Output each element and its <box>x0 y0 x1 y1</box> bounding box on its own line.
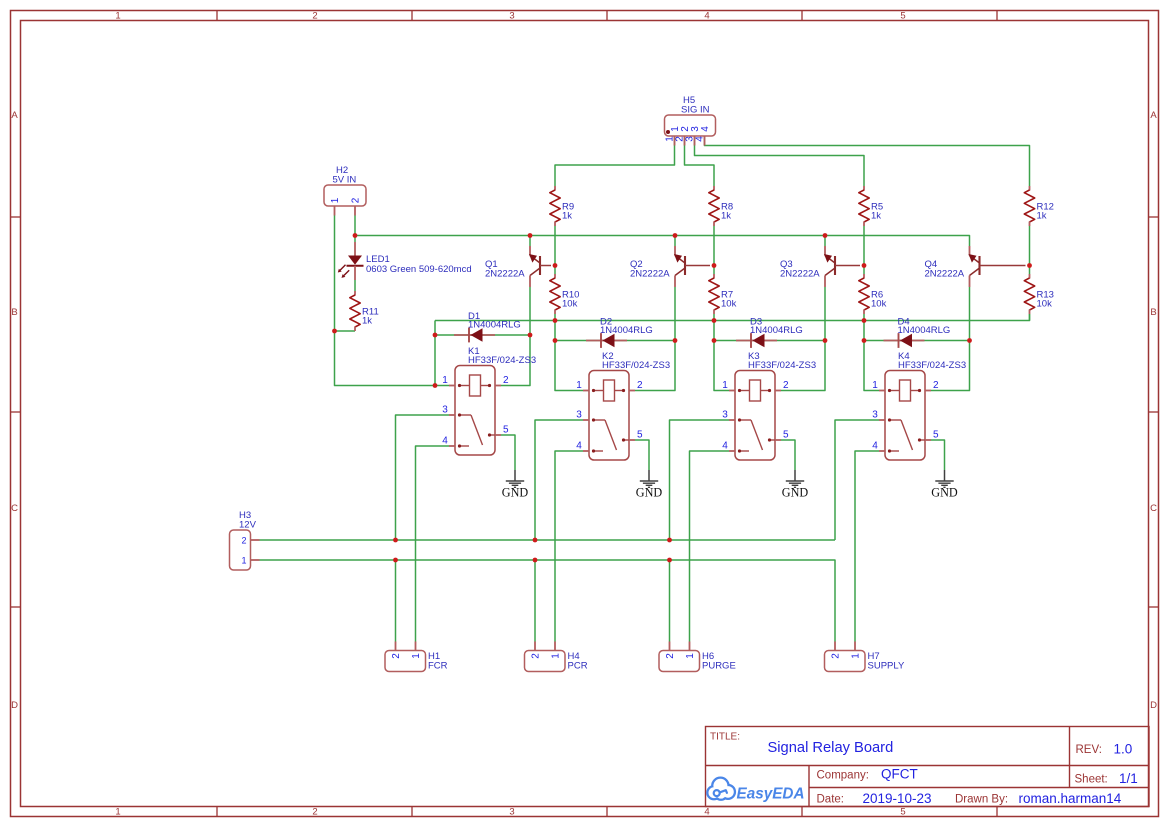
svg-text:FCR: FCR <box>428 661 448 672</box>
junction 12V rail A x=395.5 <box>393 538 398 543</box>
junction K1.1 node <box>433 383 438 388</box>
svg-text:5: 5 <box>900 11 905 22</box>
wire Q1 collector to K1.2 <box>501 287 530 386</box>
connector H2 5V IN <box>324 165 366 216</box>
svg-text:2: 2 <box>783 380 789 391</box>
svg-text:GND: GND <box>636 486 663 500</box>
svg-text:1: 1 <box>851 653 862 659</box>
junction D4 right <box>967 338 972 343</box>
resistor R6 <box>859 274 887 314</box>
svg-text:C: C <box>1150 503 1157 514</box>
wire R top to base node x=555 <box>554 226 556 274</box>
transistor Q3 2N2222A <box>780 246 860 287</box>
svg-text:A: A <box>11 110 18 121</box>
svg-text:B: B <box>1150 307 1156 318</box>
wire R bottom x=1029.5 <box>1029 314 1031 321</box>
wire K3.5 to GND <box>781 440 795 470</box>
svg-text:Sheet:: Sheet: <box>1075 774 1108 786</box>
wire 12V rail A <box>260 539 836 541</box>
wire D4 line <box>864 340 970 342</box>
wire rail to Q emitter x=825 <box>824 236 826 247</box>
wire H2.2 down <box>354 216 356 236</box>
wire rail B to H1.2 <box>395 560 397 642</box>
wire D2 line <box>555 340 675 342</box>
svg-text:10k: 10k <box>871 299 887 310</box>
wire R bottom x=555 <box>554 314 556 321</box>
wire K1.5 to GND <box>501 435 515 470</box>
junction base node x=714 <box>712 263 717 268</box>
svg-text:4: 4 <box>704 807 709 818</box>
wire H5.3 to R5 <box>695 136 865 186</box>
svg-text:1: 1 <box>115 11 120 22</box>
resistor R7 <box>709 274 737 314</box>
svg-text:3: 3 <box>872 410 878 421</box>
svg-text:5: 5 <box>503 425 509 436</box>
wire K1.4 to H1.1 <box>416 446 450 642</box>
transistor Q4 2N2222A <box>925 246 1026 287</box>
svg-text:C: C <box>11 503 18 514</box>
resistor R13 <box>1024 274 1054 314</box>
wire D3 line <box>714 340 825 342</box>
relay K1 HF33F/024-ZS3 <box>442 346 536 455</box>
wire K1.3 to 12V rail <box>396 415 450 540</box>
connector H6 PURGE <box>659 642 736 672</box>
svg-text:2: 2 <box>831 653 842 659</box>
wire x555 down to K2.1 <box>555 321 583 391</box>
wire R top to base node x=864 <box>863 226 865 274</box>
svg-text:1: 1 <box>411 653 422 659</box>
svg-text:5: 5 <box>783 430 789 441</box>
wire Q3 collector to K3.2 <box>781 287 825 391</box>
wire H2.1 to K1.1 node <box>335 216 436 386</box>
svg-text:4: 4 <box>576 441 582 452</box>
wire D1 line <box>435 334 530 336</box>
junction base node x=1029.5 <box>1027 263 1032 268</box>
relay K4 HF33F/024-ZS3 <box>872 351 966 460</box>
ground GND K4 <box>931 470 958 500</box>
ground GND K1 <box>502 470 529 500</box>
svg-text:D: D <box>11 700 18 711</box>
svg-text:1: 1 <box>115 807 120 818</box>
junction D3 left <box>712 338 717 343</box>
resistor R10 <box>550 274 580 314</box>
svg-text:12V: 12V <box>239 520 257 531</box>
svg-text:2: 2 <box>503 375 509 386</box>
resistor R5 <box>859 186 883 226</box>
svg-text:1k: 1k <box>871 211 881 222</box>
svg-text:1N4004RLG: 1N4004RLG <box>898 325 951 336</box>
svg-text:2: 2 <box>637 380 643 391</box>
junction 5V rail x=530 <box>528 233 533 238</box>
svg-text:1N4004RLG: 1N4004RLG <box>750 325 803 336</box>
svg-text:SUPPLY: SUPPLY <box>868 661 905 672</box>
svg-text:HF33F/024-ZS3: HF33F/024-ZS3 <box>748 360 816 371</box>
wire x864 down to K4.1 <box>864 321 879 391</box>
svg-text:1k: 1k <box>1037 211 1047 222</box>
svg-text:2: 2 <box>531 653 542 659</box>
wire K2.3 to 12V rail <box>535 420 583 540</box>
svg-text:1: 1 <box>685 653 696 659</box>
wire K3.4 to H6.1 <box>690 451 730 642</box>
svg-text:2: 2 <box>665 653 676 659</box>
relay K3 HF33F/024-ZS3 <box>722 351 816 460</box>
svg-text:2019-10-23: 2019-10-23 <box>863 791 932 806</box>
svg-text:2: 2 <box>312 807 317 818</box>
junction 5V rail x=825 <box>823 233 828 238</box>
svg-text:1: 1 <box>551 653 562 659</box>
svg-text:TITLE:: TITLE: <box>710 732 740 743</box>
ground GND K3 <box>782 470 809 500</box>
svg-text:Signal Relay Board: Signal Relay Board <box>768 740 894 756</box>
wire rail to Q emitter x=675 <box>674 236 676 247</box>
resistor R12 <box>1024 186 1054 226</box>
svg-text:GND: GND <box>782 486 809 500</box>
svg-text:3: 3 <box>722 410 728 421</box>
wire R bottom x=714 <box>713 314 715 321</box>
svg-text:4: 4 <box>694 136 705 142</box>
wire K2.5 to GND <box>635 440 649 470</box>
svg-text:1: 1 <box>442 375 448 386</box>
junction D4 left <box>862 338 867 343</box>
wire R top to base node x=1029.5 <box>1029 226 1031 274</box>
svg-text:HF33F/024-ZS3: HF33F/024-ZS3 <box>468 355 536 366</box>
svg-text:4: 4 <box>722 441 728 452</box>
svg-text:Date:: Date: <box>817 794 845 806</box>
svg-text:4: 4 <box>442 436 448 447</box>
svg-text:4: 4 <box>704 11 709 22</box>
svg-text:1: 1 <box>722 380 728 391</box>
diode D2 1N4004RLG <box>586 317 653 348</box>
svg-text:3: 3 <box>442 405 448 416</box>
svg-text:2N2222A: 2N2222A <box>485 269 525 280</box>
svg-text:GND: GND <box>931 486 958 500</box>
svg-text:1N4004RLG: 1N4004RLG <box>468 320 521 331</box>
svg-text:GND: GND <box>502 486 529 500</box>
svg-text:1k: 1k <box>562 211 572 222</box>
wire K4.3 to 12V rail <box>835 420 879 540</box>
junction 12V rail A x=669.5 <box>667 538 672 543</box>
connector H7 SUPPLY <box>825 642 905 672</box>
junction y320 rail x=555 <box>553 318 558 323</box>
svg-text:2: 2 <box>391 653 402 659</box>
wire K3.3 to 12V rail <box>670 420 730 540</box>
svg-text:2: 2 <box>241 536 246 546</box>
svg-text:Drawn By:: Drawn By: <box>955 794 1008 806</box>
svg-text:5: 5 <box>900 807 905 818</box>
svg-text:1.0: 1.0 <box>1114 742 1133 757</box>
svg-text:10k: 10k <box>562 299 578 310</box>
svg-text:B: B <box>11 307 17 318</box>
svg-text:2N2222A: 2N2222A <box>630 269 670 280</box>
svg-text:3: 3 <box>509 11 514 22</box>
svg-text:1/1: 1/1 <box>1119 771 1138 786</box>
svg-text:3: 3 <box>576 410 582 421</box>
junction D2 right <box>673 338 678 343</box>
title block <box>706 727 1150 807</box>
svg-text:QFCT: QFCT <box>881 767 918 782</box>
junction 12V rail B x=535 <box>533 558 538 563</box>
junction R11 bottom <box>332 329 337 334</box>
junction D3 right <box>823 338 828 343</box>
svg-text:5: 5 <box>933 430 939 441</box>
svg-text:D: D <box>1150 700 1157 711</box>
svg-text:HF33F/024-ZS3: HF33F/024-ZS3 <box>602 360 670 371</box>
LED LED1 0603 Green 509-620mcd <box>338 242 472 280</box>
wire R bottom x=864 <box>863 314 865 321</box>
junction D2 left <box>553 338 558 343</box>
wire 5V rail to Q4 <box>355 236 970 247</box>
resistor R8 <box>709 186 733 226</box>
svg-text:REV:: REV: <box>1076 744 1102 756</box>
connector H1 FCR <box>385 642 448 672</box>
wire rail B to H4.2 <box>534 560 536 642</box>
wire GND-side rail y320 to R13 <box>435 314 1030 321</box>
svg-text:1N4004RLG: 1N4004RLG <box>600 325 653 336</box>
wire K4.4 to H7.1 <box>855 451 879 642</box>
svg-text:1: 1 <box>241 556 246 566</box>
svg-text:1k: 1k <box>362 316 372 327</box>
connector H5 SIG IN <box>665 95 716 146</box>
svg-text:2: 2 <box>351 197 362 203</box>
connector H4 PCR <box>525 642 588 672</box>
svg-text:2: 2 <box>933 380 939 391</box>
svg-text:2: 2 <box>312 11 317 22</box>
EasyEDA logo <box>709 779 805 803</box>
junction 5V rail x=675 <box>673 233 678 238</box>
svg-text:4: 4 <box>700 126 711 132</box>
svg-text:1: 1 <box>330 197 341 203</box>
svg-text:2N2222A: 2N2222A <box>925 269 965 280</box>
svg-text:10k: 10k <box>721 299 737 310</box>
svg-text:HF33F/024-ZS3: HF33F/024-ZS3 <box>898 360 966 371</box>
wire rail to LED1 <box>354 236 356 243</box>
junction 12V rail A x=535 <box>533 538 538 543</box>
junction y320 rail x=714 <box>712 318 717 323</box>
svg-text:PURGE: PURGE <box>702 661 736 672</box>
wire Q2 collector to K2.2 <box>635 287 675 391</box>
wire K2.4 to H4.1 <box>555 451 583 642</box>
wire K4.5 to GND <box>931 440 945 470</box>
ground GND K2 <box>636 470 663 500</box>
diode D1 1N4004RLG <box>454 311 521 342</box>
junction D1 left <box>433 333 438 338</box>
wire LED1 to R11 <box>354 280 356 291</box>
svg-text:EasyEDA: EasyEDA <box>737 786 805 803</box>
wire 12V rail B to H7.2 <box>260 560 836 642</box>
wire H5.2 to R8 <box>685 136 715 186</box>
svg-text:10k: 10k <box>1037 299 1053 310</box>
connector H3 12V <box>230 510 260 570</box>
svg-text:1: 1 <box>576 380 582 391</box>
diode D3 1N4004RLG <box>736 317 803 348</box>
resistor R9 <box>550 186 574 226</box>
svg-text:3: 3 <box>509 807 514 818</box>
junction base node x=555 <box>553 263 558 268</box>
svg-text:roman.harman14: roman.harman14 <box>1019 791 1122 806</box>
junction 12V rail B x=395.5 <box>393 558 398 563</box>
svg-text:4: 4 <box>872 441 878 452</box>
wire H5.4 to R12 <box>705 136 1030 186</box>
svg-text:PCR: PCR <box>568 661 588 672</box>
relay K2 HF33F/024-ZS3 <box>576 351 670 460</box>
svg-text:5: 5 <box>637 430 643 441</box>
svg-text:2N2222A: 2N2222A <box>780 269 820 280</box>
wire Q4 collector to K4.2 <box>931 287 970 391</box>
junction base node x=864 <box>862 263 867 268</box>
transistor Q2 2N2222A <box>630 246 710 287</box>
svg-text:0603 Green 509-620mcd: 0603 Green 509-620mcd <box>366 264 472 275</box>
junction 12V rail B x=669.5 <box>667 558 672 563</box>
svg-text:1: 1 <box>872 380 878 391</box>
svg-text:1k: 1k <box>721 211 731 222</box>
wire rail to Q emitter x=530 <box>529 236 531 247</box>
wire x714 down to K3.1 <box>714 321 729 391</box>
svg-text:A: A <box>1150 110 1157 121</box>
junction D1 right <box>528 333 533 338</box>
wire x435 down to K1.1 <box>435 321 449 386</box>
diode D4 1N4004RLG <box>884 317 951 348</box>
transistor Q1 2N2222A <box>485 246 551 287</box>
wire R top to base node x=714 <box>713 226 715 274</box>
junction 5V rail x=355 <box>353 233 358 238</box>
wire R11 to H2.1 line <box>335 330 356 332</box>
svg-text:Company:: Company: <box>817 770 869 782</box>
wire H5.1 to R9 <box>555 136 675 186</box>
svg-text:5V IN: 5V IN <box>333 175 357 186</box>
junction y320 rail x=864 <box>862 318 867 323</box>
resistor R11 <box>350 291 379 331</box>
svg-text:SIG IN: SIG IN <box>681 105 710 116</box>
wire rail B to H6.2 <box>669 560 671 642</box>
